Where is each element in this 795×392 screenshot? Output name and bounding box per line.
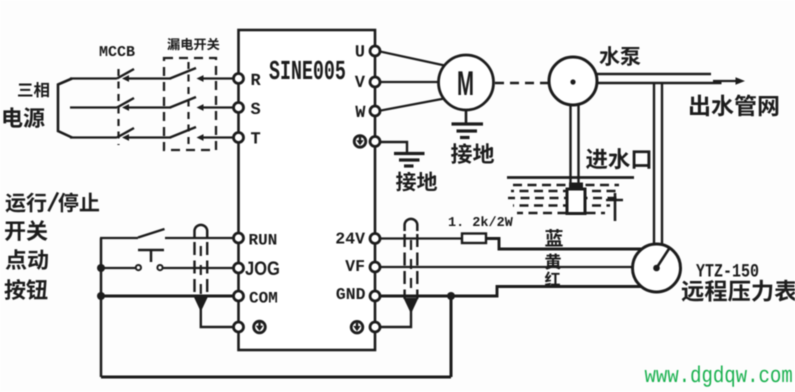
breaker MCCB pole 3 blade xyxy=(117,128,134,138)
wire: phase T to MCCB xyxy=(70,136,117,138)
wire: RUN line left xyxy=(100,237,138,239)
terminal ring left y=238 xyxy=(234,233,244,243)
pin label RUN xyxy=(250,234,277,245)
pump P1 circle xyxy=(549,57,597,105)
label 远程压力表 xyxy=(682,280,795,302)
ground symbol (motor) xyxy=(452,122,484,125)
pin label T xyxy=(251,132,260,143)
pipe: outlet bottom line xyxy=(594,82,722,84)
label 1.2k/2W xyxy=(449,216,513,226)
pipe: branch to gauge (left line) xyxy=(653,84,655,252)
pipe: suction right line xyxy=(577,103,579,185)
breaker MCCB pole 1 blade xyxy=(117,69,134,79)
breaker: leakage switch linkage (dashed) xyxy=(187,62,189,146)
shielded cable (right) xyxy=(405,219,418,231)
wire: GND to gauge (red) xyxy=(378,287,650,297)
inverter label SINE005 xyxy=(269,61,345,80)
label 接地 (inverter ground) xyxy=(396,172,437,192)
motor M1 circle xyxy=(439,55,494,110)
terminal ring right y=327 xyxy=(370,322,380,332)
wire: motor-pump shaft (dashed) xyxy=(495,82,548,85)
terminal ring left y=327 xyxy=(234,322,244,332)
pipe: branch to gauge (right line) xyxy=(661,84,663,252)
pin label JOG xyxy=(245,261,279,275)
wire: MCCB pole 1 to leakage switch xyxy=(129,77,171,79)
terminal ring right y=141.5 xyxy=(370,137,380,147)
wire: GND junction to bottom bus xyxy=(450,296,453,377)
wire: MCCB pole 3 to leakage switch xyxy=(129,136,171,138)
node: three-phase source label 三相电源 xyxy=(18,82,49,97)
wire: VF to gauge (yellow) xyxy=(378,266,650,268)
breaker: leakage switch pole 2 blade xyxy=(170,97,196,108)
gauge G1 circle xyxy=(633,244,681,292)
wire: JOG line left xyxy=(101,267,136,269)
earth terminal symbol (top right) xyxy=(354,136,366,148)
foot valve body xyxy=(567,189,585,214)
pipe: suction left line xyxy=(569,103,571,185)
terminal ring left y=78.5 xyxy=(234,74,244,84)
terminal ring right y=111 xyxy=(370,106,380,116)
terminal ring right y=296 xyxy=(370,291,380,301)
wire: resistor to gauge (blue) xyxy=(486,239,650,250)
terminal ring right y=51 xyxy=(370,46,380,56)
motor M1 letter M xyxy=(458,71,472,95)
terminal ring right y=238.5 xyxy=(370,234,380,244)
terminal ring left y=268 xyxy=(234,263,244,273)
water tank surface line xyxy=(507,176,634,179)
wire: bottom bus xyxy=(101,376,451,379)
junction dot GND/bottom bus xyxy=(447,292,455,300)
wire: COM line xyxy=(101,295,237,298)
terminal ring left y=296 xyxy=(234,291,244,301)
pin label U xyxy=(356,45,364,56)
wire: right shield to ground terminal xyxy=(379,310,411,327)
wire: W to motor xyxy=(378,98,447,111)
labels 运行/停止 开关 点动 按钮 xyxy=(6,192,100,212)
inverter ground terminal wire (top) xyxy=(380,142,407,152)
outlet flow arrow xyxy=(713,80,738,82)
wire: leakage switch pole 1 to terminal xyxy=(203,77,237,79)
wire: phase S to MCCB xyxy=(70,106,117,108)
pipe: outlet top line xyxy=(594,73,711,75)
wire: phase R to MCCB xyxy=(70,77,117,79)
wire: leakage switch pole 2 to terminal xyxy=(203,106,237,108)
breaker: leakage switch enclosure (dashed box) xyxy=(164,58,216,150)
label 红 xyxy=(545,271,560,285)
terminal ring right y=267 xyxy=(370,262,380,272)
resistor R1 1.2k/2W xyxy=(462,234,486,244)
pin label GND xyxy=(336,288,364,299)
pin label W xyxy=(355,106,365,117)
breaker: leakage switch label 漏电开关 xyxy=(167,38,219,50)
foot valve: pipe nub xyxy=(569,183,583,190)
breaker MCCB pole 2 blade xyxy=(117,98,134,108)
pin label VF xyxy=(345,260,364,271)
pushbutton S2 (jog) xyxy=(138,249,164,252)
wire: left bus vertical xyxy=(100,238,103,377)
wire: MCCB pole 2 to leakage switch xyxy=(129,106,171,108)
label 接地 (motor ground) xyxy=(451,143,494,164)
breaker: leakage switch pole 1 blade xyxy=(170,68,196,79)
inverter U1 SINE005 enclosure xyxy=(239,30,376,350)
label YTZ-150 xyxy=(696,264,758,277)
breaker MCCB linkage (dashed) xyxy=(117,69,119,145)
wire: 24V to resistor xyxy=(378,237,462,239)
water level tick xyxy=(614,193,617,221)
pin label S xyxy=(251,103,260,115)
switch S1 (run/stop) blade xyxy=(138,229,165,238)
wire: left shield to ground terminal xyxy=(201,308,236,327)
breaker: leakage switch pole 3 blade xyxy=(170,127,196,138)
earth terminal symbol (bottom right) xyxy=(351,321,363,333)
wire: U to motor xyxy=(378,51,447,66)
earth terminal symbol (bottom left) xyxy=(254,321,266,333)
wire: RUN line right xyxy=(165,237,237,239)
pin label COM xyxy=(250,292,277,303)
label 出水管网 xyxy=(690,94,778,116)
terminal ring left y=107.5 xyxy=(234,103,244,113)
ground symbol (inverter top) xyxy=(394,152,425,155)
pin label 24V xyxy=(336,232,365,243)
pin label V xyxy=(355,76,365,87)
wire: motor ground stem xyxy=(465,110,468,123)
label 水泵 xyxy=(599,46,640,66)
pin label R xyxy=(252,74,261,85)
shielded cable (left) xyxy=(195,225,208,237)
junction dot COM xyxy=(97,292,105,300)
wire: JOG line right xyxy=(163,267,237,269)
breaker MCCB label xyxy=(100,46,135,56)
wire: source bracket xyxy=(58,79,72,138)
label 进水口 xyxy=(586,148,650,169)
gauge needle xyxy=(657,248,670,268)
label 黄 xyxy=(545,254,560,270)
junction dot JOG xyxy=(97,264,105,272)
wire: V to motor xyxy=(378,81,441,83)
label 蓝 xyxy=(545,229,562,246)
watermark www.dgdqw.com xyxy=(645,365,792,386)
water ripples (dashed rows) xyxy=(513,184,619,187)
terminal ring right y=82 xyxy=(370,77,380,87)
wire: leakage switch pole 3 to terminal xyxy=(203,136,237,138)
terminal ring left y=137.5 xyxy=(234,133,244,143)
